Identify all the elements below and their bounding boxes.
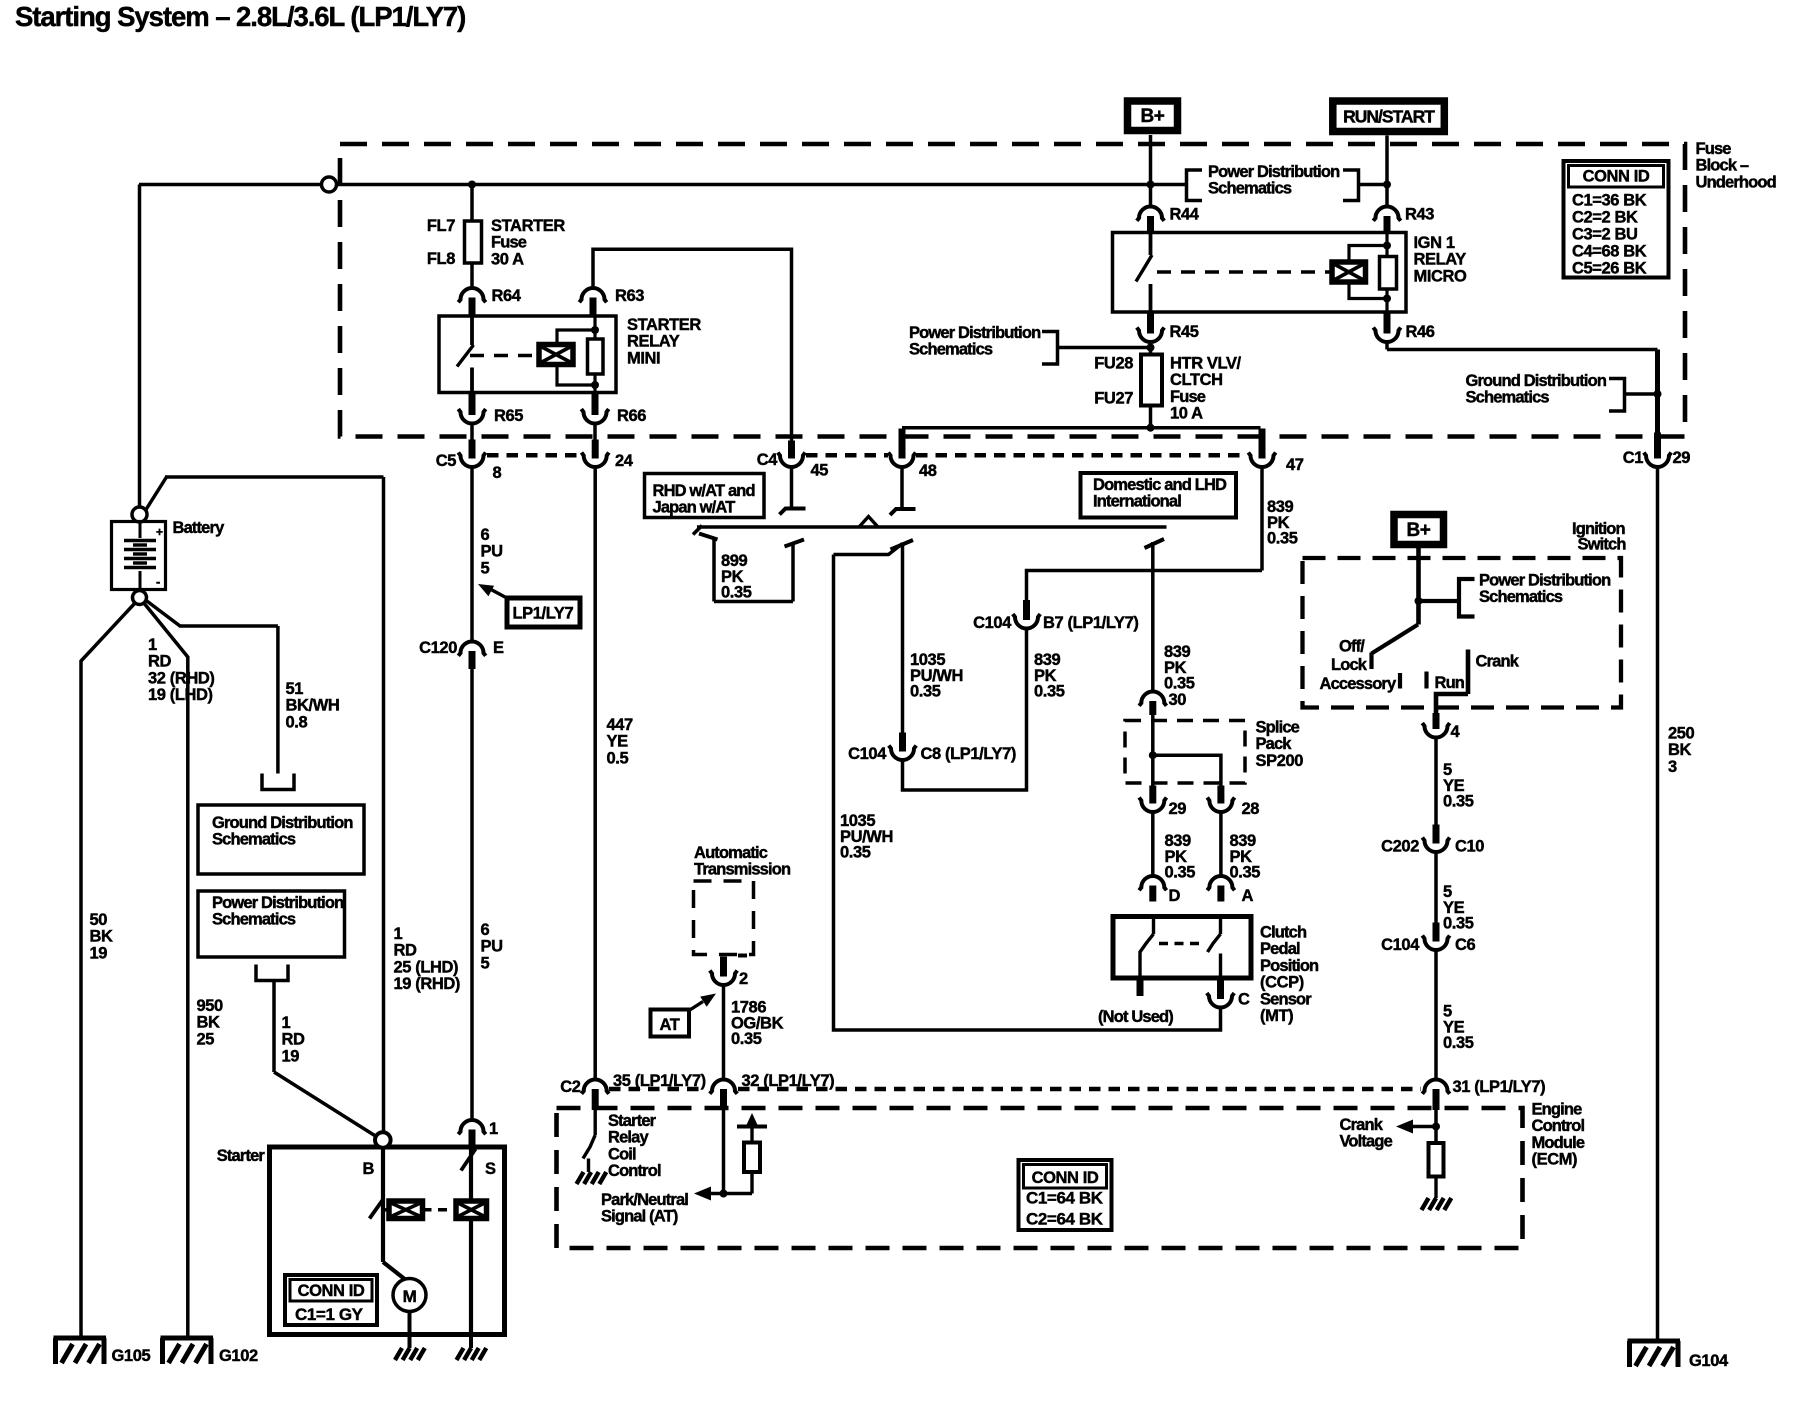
LP1/LY7 callout box: [507, 598, 580, 627]
svg-text:+: +: [156, 525, 163, 539]
svg-text:RELAY: RELAY: [627, 333, 680, 351]
ground G105: [54, 1336, 107, 1341]
svg-text:C: C: [1238, 991, 1250, 1009]
connector 24: [592, 440, 599, 459]
connector R65: [469, 392, 476, 415]
svg-text:BK: BK: [197, 1014, 221, 1032]
connector row dotted line C5-24: [487, 453, 583, 458]
svg-text:RD: RD: [282, 1031, 306, 1049]
B+ terminal top: [1128, 101, 1178, 131]
svg-text:(ECM): (ECM): [1532, 1151, 1578, 1169]
svg-text:Schematics: Schematics: [1208, 180, 1292, 198]
svg-text:Power Distribution: Power Distribution: [1208, 163, 1340, 181]
svg-text:Automatic: Automatic: [694, 844, 768, 862]
clutch pedal position sensor box: [1113, 917, 1251, 979]
wire to starter B horizontal: [146, 477, 167, 510]
svg-text:R43: R43: [1405, 206, 1434, 224]
wire 250 BK 3: [1656, 467, 1660, 1340]
svg-text:C202: C202: [1381, 838, 1419, 856]
svg-text:32 (RHD): 32 (RHD): [148, 669, 214, 687]
svg-text:0.35: 0.35: [1164, 675, 1195, 693]
svg-text:C1=64 BK: C1=64 BK: [1026, 1189, 1104, 1208]
connector 29: [1149, 786, 1156, 804]
IGN relay switch: [1149, 233, 1153, 256]
wire fuse to branch: [1149, 406, 1153, 428]
connector 30: [1139, 692, 1166, 706]
connector R63: [579, 288, 606, 302]
wire R65 to C5: [470, 424, 474, 442]
svg-text:R44: R44: [1170, 206, 1200, 224]
svg-text:E: E: [493, 639, 504, 657]
wire 839 PK right: [1219, 812, 1223, 876]
svg-text:C3=2 BU: C3=2 BU: [1572, 226, 1638, 244]
wire R66 to pin 24: [593, 424, 597, 442]
svg-text:B: B: [363, 1160, 375, 1178]
wire 950 BK 25 to G102: [144, 603, 188, 658]
wire B+ down: [1149, 135, 1153, 207]
svg-text:R45: R45: [1170, 323, 1199, 341]
starter relay resistor: [588, 339, 604, 374]
svg-text:Starting System – 2.8L/3.6L (L: Starting System – 2.8L/3.6L (LP1/LY7): [15, 1, 465, 32]
svg-text:6: 6: [481, 526, 490, 544]
wire 5 YE lower: [1434, 950, 1438, 1080]
svg-text:Transmission: Transmission: [694, 861, 791, 879]
svg-text:C8 (LP1/LY7): C8 (LP1/LY7): [921, 745, 1016, 763]
IGN relay dashed link: [1157, 270, 1332, 274]
svg-text:0.35: 0.35: [1230, 864, 1261, 882]
svg-text:Module: Module: [1532, 1134, 1585, 1152]
ignition switch B+ terminal: [1394, 515, 1444, 545]
svg-text:Position: Position: [1260, 957, 1319, 975]
svg-text:45: 45: [811, 462, 829, 480]
connector C104 C6: [1433, 923, 1440, 942]
svg-text:B+: B+: [1406, 520, 1430, 541]
svg-text:R65: R65: [494, 407, 523, 425]
power distribution schematics box left: [198, 891, 345, 957]
svg-text:BK: BK: [90, 928, 114, 946]
ignition switch blade: [1372, 625, 1419, 654]
starter relay coil dashed link: [470, 354, 539, 358]
wire AT to pin 2: [738, 954, 747, 958]
connector 2: [720, 957, 727, 977]
node junction at fuse FL7: [468, 181, 476, 189]
svg-text:D: D: [1169, 887, 1181, 905]
starter relay mini box: [439, 316, 616, 393]
svg-text:AT: AT: [660, 1016, 680, 1034]
svg-text:Underhood: Underhood: [1696, 173, 1776, 191]
svg-text:C2=2 BK: C2=2 BK: [1572, 209, 1638, 227]
wire 447 YE: [593, 467, 597, 1080]
svg-text:STARTER: STARTER: [627, 316, 701, 334]
wire 47 to B7 839 PK: [1260, 467, 1264, 571]
connector row dotted C4-48-47: [806, 453, 888, 458]
park neutral signal wire: [722, 1094, 726, 1194]
svg-text:0.35: 0.35: [1267, 530, 1298, 548]
svg-text:5: 5: [481, 954, 490, 972]
svg-text:SP200: SP200: [1256, 752, 1304, 770]
wire 6 PU 5 lower: [470, 669, 474, 1120]
svg-text:Control: Control: [1532, 1117, 1585, 1135]
svg-text:STARTER: STARTER: [491, 217, 565, 235]
connector 1 starter solenoid: [458, 1120, 485, 1134]
svg-text:Power Distribution: Power Distribution: [909, 324, 1041, 342]
svg-text:C2=64 BK: C2=64 BK: [1026, 1210, 1104, 1229]
connector 4: [1433, 713, 1440, 729]
svg-text:0.35: 0.35: [721, 584, 752, 602]
IGN relay resistor: [1380, 257, 1397, 290]
svg-text:19 (LHD): 19 (LHD): [148, 686, 213, 704]
svg-text:A: A: [1242, 887, 1254, 905]
connector C2 pin 35: [582, 1080, 609, 1094]
svg-text:Schematics: Schematics: [212, 911, 296, 929]
wire 5 YE middle: [1434, 852, 1438, 923]
ground distribution bracket cup: [262, 774, 294, 790]
CCP right switch: [1219, 917, 1222, 935]
starter S ground: [469, 1335, 473, 1349]
svg-text:RUN/START: RUN/START: [1343, 107, 1435, 127]
svg-text:FL7: FL7: [427, 217, 455, 235]
svg-text:Crank: Crank: [1476, 653, 1520, 671]
svg-text:Power Distribution: Power Distribution: [212, 894, 344, 912]
ECM dashed box: [557, 1108, 1523, 1248]
CCP coupling dashes: [1159, 942, 1204, 946]
svg-text:19: 19: [90, 944, 108, 962]
svg-text:BK: BK: [1668, 741, 1692, 759]
svg-text:Coil: Coil: [608, 1145, 636, 1163]
svg-text:1: 1: [148, 636, 157, 654]
starter relay coil control switch: [594, 1098, 597, 1135]
wire 50 BK 19 to G105: [81, 603, 136, 662]
svg-text:1: 1: [394, 925, 403, 943]
svg-text:S: S: [485, 1160, 496, 1178]
svg-text:C5: C5: [436, 452, 457, 470]
svg-text:HTR VLV/: HTR VLV/: [1170, 355, 1242, 373]
svg-text:2: 2: [739, 970, 748, 988]
connector R45: [1147, 311, 1154, 334]
svg-text:Switch: Switch: [1578, 536, 1627, 554]
svg-text:(CCP): (CCP): [1260, 974, 1304, 992]
wire R63 to C4: [593, 249, 792, 441]
IGN relay coil: [1332, 262, 1366, 282]
svg-text:B+: B+: [1140, 106, 1164, 127]
wire C8 loop to B7: [903, 629, 1027, 790]
svg-text:Schematics: Schematics: [1479, 588, 1563, 606]
crank voltage pullup resistor AT: [750, 1172, 753, 1194]
svg-text:0.35: 0.35: [731, 1030, 762, 1048]
CCP not used pin: [1137, 978, 1144, 996]
svg-text:Off/: Off/: [1339, 638, 1365, 656]
junction circle: [322, 177, 337, 192]
svg-text:C104: C104: [973, 614, 1012, 632]
svg-text:28: 28: [1242, 800, 1260, 818]
connector R43: [1373, 207, 1400, 221]
fuse block underhood dashed box: [340, 144, 1685, 437]
wire RUN/START down: [1385, 136, 1389, 207]
svg-text:MINI: MINI: [627, 349, 660, 367]
connector row dotted C2: [609, 1087, 706, 1092]
svg-text:0.35: 0.35: [1034, 683, 1065, 701]
ground G104: [1628, 1339, 1681, 1344]
svg-text:C1: C1: [1623, 449, 1644, 467]
wire R45 to fuse: [1149, 342, 1153, 355]
svg-text:PU: PU: [481, 938, 503, 956]
connector D: [1139, 876, 1166, 890]
svg-text:Park/Neutral: Park/Neutral: [601, 1191, 688, 1209]
svg-text:C5=26 BK: C5=26 BK: [1572, 260, 1647, 278]
starter relay switch: [470, 316, 474, 345]
svg-text:Ground Distribution: Ground Distribution: [212, 814, 353, 832]
svg-text:0.35: 0.35: [1443, 1034, 1474, 1052]
wire 6 PU 5 upper: [470, 467, 474, 642]
power distribution bracket cup: [256, 965, 288, 981]
connector 47: [1259, 429, 1266, 459]
svg-text:YE: YE: [607, 733, 629, 751]
svg-text:Splice: Splice: [1256, 719, 1300, 737]
starter B wire and switch: [381, 1148, 385, 1262]
crank voltage resistor: [1429, 1143, 1444, 1177]
svg-text:RD: RD: [148, 653, 172, 671]
connector R66: [592, 392, 599, 415]
svg-text:C4: C4: [757, 451, 779, 469]
svg-text:C6: C6: [1455, 936, 1476, 954]
svg-text:47: 47: [1286, 456, 1304, 474]
bus chevron: [859, 517, 878, 528]
wire 48 option end: [900, 467, 904, 508]
svg-text:Run: Run: [1435, 674, 1465, 692]
connector C104 C8: [899, 733, 906, 752]
svg-text:Engine: Engine: [1532, 1101, 1583, 1119]
RHD option loop wire 899 PK: [699, 534, 718, 540]
connector R46: [1384, 311, 1391, 334]
battery: [132, 507, 147, 522]
svg-text:29: 29: [1169, 800, 1187, 818]
connector C104 B7: [1023, 600, 1030, 620]
wire 839 PK option drop: [1145, 539, 1165, 548]
svg-text:IGN 1: IGN 1: [1414, 234, 1455, 252]
RHD w/AT box: [645, 474, 765, 518]
automatic transmission dashed box: [694, 881, 754, 955]
starter solenoid coils: [383, 1208, 389, 1211]
wire 5 YE upper: [1434, 738, 1438, 826]
svg-text:C104: C104: [1381, 936, 1420, 954]
svg-text:FU27: FU27: [1094, 390, 1133, 408]
svg-text:8: 8: [493, 464, 502, 482]
connector C: [1217, 977, 1224, 999]
svg-text:C1=1 GY: C1=1 GY: [295, 1305, 364, 1324]
svg-text:Sensor: Sensor: [1260, 990, 1312, 1008]
wire 1 RD 19 to starter: [272, 981, 276, 1073]
svg-text:FL8: FL8: [427, 250, 455, 268]
svg-text:G105: G105: [112, 1347, 151, 1365]
svg-text:Voltage: Voltage: [1340, 1133, 1393, 1151]
svg-text:International: International: [1093, 493, 1181, 511]
svg-text:30: 30: [1169, 691, 1187, 709]
starter B junction circle: [375, 1132, 391, 1148]
svg-text:0.35: 0.35: [1443, 793, 1474, 811]
svg-text:C10: C10: [1455, 838, 1484, 856]
connector C120 pin E: [458, 642, 485, 656]
svg-text:C104: C104: [848, 745, 887, 763]
svg-text:Power Distribution: Power Distribution: [1479, 572, 1611, 590]
svg-text:M: M: [403, 1287, 417, 1306]
wire CCP C to 1035 wire: [834, 555, 1221, 1031]
AT callout box: [651, 1010, 690, 1037]
svg-text:Block –: Block –: [1696, 157, 1749, 175]
svg-text:Starter: Starter: [608, 1112, 657, 1130]
connector 31: [1422, 1080, 1449, 1094]
svg-text:Battery: Battery: [173, 519, 226, 537]
connector C202 C10: [1433, 825, 1440, 844]
wire battery positive vertical: [138, 185, 142, 508]
svg-text:Fuse: Fuse: [491, 234, 527, 252]
svg-text:25 (LHD): 25 (LHD): [394, 958, 459, 976]
wire 51 BK/WH battery ground lead: [146, 600, 181, 626]
wire 839 PK left: [1151, 812, 1155, 876]
starter CONN ID table: [285, 1275, 377, 1325]
svg-text:0.5: 0.5: [607, 749, 629, 767]
splice pack wires: [1151, 715, 1155, 786]
wire main feed horizontal: [139, 183, 322, 187]
ground distribution schematics box: [198, 805, 364, 874]
svg-text:4: 4: [1451, 723, 1461, 741]
svg-text:(MT): (MT): [1260, 1007, 1293, 1025]
svg-text:RHD w/AT and: RHD w/AT and: [653, 482, 755, 500]
svg-text:G102: G102: [219, 1347, 258, 1365]
svg-text:BK/WH: BK/WH: [286, 697, 340, 715]
svg-text:0.8: 0.8: [286, 713, 308, 731]
connector 32: [710, 1080, 737, 1094]
svg-text:Schematics: Schematics: [1466, 389, 1550, 407]
svg-text:Starter: Starter: [217, 1147, 266, 1165]
svg-text:51: 51: [286, 680, 304, 698]
svg-text:R46: R46: [1406, 323, 1435, 341]
CONN ID table fuse block: [1564, 161, 1669, 278]
svg-text:RD: RD: [394, 942, 418, 960]
svg-text:1: 1: [489, 1120, 498, 1138]
svg-text:447: 447: [607, 716, 634, 734]
svg-text:LP1/LY7: LP1/LY7: [513, 605, 574, 623]
wire 1786 OG/BK: [722, 985, 726, 1080]
starter relay coil: [539, 345, 573, 365]
svg-text:C4=68 BK: C4=68 BK: [1572, 243, 1647, 261]
svg-text:Control: Control: [608, 1162, 661, 1180]
connector A: [1207, 876, 1234, 890]
ground G102: [161, 1336, 214, 1341]
svg-text:R63: R63: [615, 287, 644, 305]
wire options bus: [697, 525, 1167, 529]
svg-text:RELAY: RELAY: [1414, 251, 1467, 269]
svg-text:1: 1: [282, 1014, 291, 1032]
starter S wire: [469, 1147, 473, 1201]
svg-text:Accessory: Accessory: [1320, 675, 1397, 693]
svg-text:Schematics: Schematics: [909, 341, 993, 359]
ECM CONN ID table: [1019, 1160, 1112, 1230]
svg-text:C120: C120: [419, 639, 457, 657]
fuse FL7 FL8 starter 30A: [465, 221, 482, 263]
IGN 1 relay micro box: [1113, 233, 1407, 313]
svg-text:(Not Used): (Not Used): [1098, 1008, 1173, 1026]
wire fuse to R64: [470, 263, 474, 288]
svg-text:0.35: 0.35: [910, 683, 941, 701]
RUN/START terminal: [1333, 101, 1445, 132]
svg-text:50: 50: [90, 911, 108, 929]
svg-text:29: 29: [1673, 449, 1691, 467]
branch line below fuse FU27: [902, 426, 1261, 430]
svg-text:31 (LP1/LY7): 31 (LP1/LY7): [1453, 1078, 1546, 1096]
svg-text:6: 6: [481, 921, 490, 939]
svg-text:B7 (LP1/LY7): B7 (LP1/LY7): [1043, 614, 1138, 632]
svg-text:CONN ID: CONN ID: [1583, 168, 1650, 186]
svg-text:19 (RHD): 19 (RHD): [394, 975, 460, 993]
svg-text:Pack: Pack: [1256, 735, 1293, 753]
svg-text:Fuse: Fuse: [1696, 140, 1732, 158]
Domestic and LHD box: [1081, 473, 1237, 518]
connector 48: [899, 429, 906, 459]
svg-text:R64: R64: [492, 287, 522, 305]
connector 28: [1217, 786, 1224, 804]
svg-text:5: 5: [481, 559, 490, 577]
svg-text:CONN ID: CONN ID: [298, 1282, 365, 1300]
svg-text:30 A: 30 A: [491, 250, 524, 268]
starter motor ground: [408, 1335, 412, 1349]
connector C4 pin 45: [788, 441, 795, 459]
svg-text:PU: PU: [481, 543, 503, 561]
power distribution schematics label ignition: [1419, 599, 1460, 603]
svg-text:C2: C2: [560, 1078, 581, 1096]
svg-text:10 A: 10 A: [1170, 405, 1203, 423]
svg-text:Domestic and LHD: Domestic and LHD: [1093, 476, 1227, 494]
wire 1035 to C8: [901, 544, 905, 733]
svg-text:0.35: 0.35: [1443, 915, 1474, 933]
svg-text:3: 3: [1668, 758, 1677, 776]
splice pack SP200 dashed box: [1125, 721, 1245, 784]
svg-text:0.35: 0.35: [840, 844, 871, 862]
fuse FU28 FU27 HTR VLV 10A: [1141, 355, 1162, 406]
connector C1 pin 29: [1654, 433, 1661, 459]
svg-text:48: 48: [919, 462, 937, 480]
svg-text:CLTCH: CLTCH: [1170, 371, 1223, 389]
svg-text:C1=36 BK: C1=36 BK: [1572, 192, 1647, 210]
svg-text:Crank: Crank: [1340, 1116, 1384, 1134]
svg-text:Pedal: Pedal: [1260, 940, 1300, 958]
svg-text:250: 250: [1668, 725, 1695, 743]
svg-text:CONN ID: CONN ID: [1032, 1169, 1099, 1187]
crank voltage node: [1434, 1094, 1438, 1143]
connector R44: [1137, 207, 1164, 221]
svg-text:Signal (AT): Signal (AT): [601, 1208, 678, 1226]
starter motor: [383, 1262, 407, 1281]
svg-text:19: 19: [282, 1047, 300, 1065]
svg-text:24: 24: [615, 452, 634, 470]
svg-text:Ground Distribution: Ground Distribution: [1466, 372, 1607, 390]
svg-text:0.35: 0.35: [1165, 864, 1196, 882]
connector C5 pin 8: [469, 440, 476, 459]
svg-text:-: -: [156, 574, 160, 589]
CCP left switch: [1152, 917, 1155, 935]
wire fusible link feed: [470, 185, 474, 222]
ignition B+ wire: [1416, 548, 1421, 625]
svg-text:FU28: FU28: [1094, 355, 1133, 373]
svg-text:Relay: Relay: [608, 1129, 649, 1147]
starter box: [270, 1147, 505, 1335]
wire C4 option end: [790, 467, 794, 508]
svg-text:G104: G104: [1689, 1352, 1729, 1370]
wire crank to pin 4: [1436, 694, 1468, 713]
svg-text:Schematics: Schematics: [212, 831, 296, 849]
ignition switch dashed box: [1303, 558, 1622, 708]
svg-text:Clutch: Clutch: [1260, 924, 1307, 942]
svg-text:Fuse: Fuse: [1170, 388, 1206, 406]
